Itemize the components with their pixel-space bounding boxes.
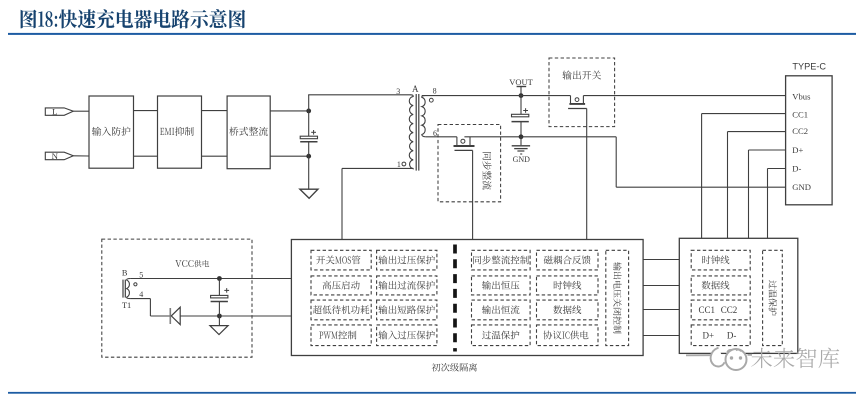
- terminal N: [45, 151, 73, 161]
- wire switch to Vbus: [583, 95, 785, 97]
- svg-text:VOUT: VOUT: [509, 77, 533, 87]
- label 初次级隔离: [432, 363, 477, 372]
- wire D+ to protocol IC: [749, 150, 786, 238]
- ref label B: [122, 269, 128, 278]
- wire sync FET source rail: [464, 136, 616, 138]
- function block 高压启动: [311, 276, 371, 295]
- capacitor C3 VCC: [211, 279, 228, 317]
- junction dot output gnd rail: [519, 134, 524, 139]
- svg-text:D+: D+: [703, 331, 715, 341]
- polarity dot secondary pin8: [429, 98, 433, 102]
- junction dot VCC cap bottom: [217, 314, 222, 319]
- ground input bulk: [300, 156, 318, 198]
- diode D1: [170, 307, 180, 324]
- transistor Q1 output switch MOSFET: [568, 96, 587, 109]
- watermark swoosh: [686, 348, 752, 367]
- wire bus line 2: [643, 285, 679, 287]
- pin Vbus: [792, 91, 811, 101]
- wire VOUT stub: [520, 87, 522, 96]
- pin label 5: [139, 270, 143, 279]
- function block 同步整流控制: [472, 250, 531, 270]
- svg-text:3: 3: [396, 87, 400, 96]
- transformer T1 aux winding: [127, 279, 131, 299]
- pin D-: [792, 164, 801, 174]
- terminal L: [45, 107, 73, 117]
- pin D+: [792, 145, 803, 155]
- function block 输出短路保护: [377, 300, 437, 320]
- svg-text:8: 8: [433, 87, 437, 96]
- pin CC1: [792, 109, 808, 119]
- pin label 4: [139, 290, 143, 299]
- wire diode to VCC return: [180, 315, 291, 317]
- function block 超低待机功耗: [311, 300, 371, 320]
- function block 数据线: [537, 300, 599, 320]
- svg-text:A: A: [412, 84, 419, 94]
- junction dot top of bulk cap: [306, 109, 311, 114]
- dashed box VCC供电: [102, 239, 252, 357]
- svg-text:4: 4: [139, 290, 143, 299]
- transformer T1 aux core: [123, 280, 125, 298]
- interface block 数据线: [691, 276, 750, 295]
- connector J1 TYPE-C box: [786, 76, 833, 205]
- wire primary bottom to PWM controller: [342, 168, 411, 239]
- wire bridge to bulk-cap top: [270, 110, 309, 112]
- wire secondary pin6 to sync FET: [426, 136, 457, 138]
- svg-text:GND: GND: [513, 155, 531, 164]
- wire CC1 to protocol IC: [702, 114, 786, 239]
- polarity dot primary pin1: [402, 162, 406, 166]
- wire riser to transformer primary: [308, 95, 410, 111]
- svg-text:CC1: CC1: [698, 305, 715, 315]
- watermark logo circle: [726, 349, 747, 370]
- transistor Q2 sync rectifier MOSFET: [454, 137, 475, 151]
- block U1 输入防护: [89, 96, 134, 168]
- pin label 3 primary top: [396, 87, 400, 96]
- svg-text:CC1: CC1: [792, 109, 808, 119]
- svg-text:CC2: CC2: [721, 305, 738, 315]
- interface block CC1 CC2: [691, 300, 750, 320]
- ref label T1: [122, 301, 131, 310]
- wire 输入防护 to EMI top: [134, 110, 158, 112]
- function block 过温保护: [472, 325, 531, 346]
- function block 输出电压关闭控制: [606, 250, 629, 345]
- wire bridge to bulk-cap bottom: [270, 155, 309, 157]
- connector J1 TYPE-C label: [792, 61, 826, 71]
- wire L to input-protection: [73, 110, 89, 112]
- pin GND: [792, 182, 811, 192]
- svg-text:CC2: CC2: [792, 126, 808, 136]
- wire 输入防护 to EMI bottom: [134, 155, 158, 157]
- block U5 protocol IC outline: [679, 238, 798, 353]
- pin label 6 secondary bottom: [433, 129, 437, 138]
- function block 输出过流保护: [377, 276, 437, 295]
- pin CC2: [792, 126, 808, 136]
- wire pin5 to VCC rail: [130, 278, 291, 280]
- svg-text:TYPE-C: TYPE-C: [792, 61, 826, 71]
- capacitor C2 output: [512, 96, 529, 137]
- transformer T2 core: [416, 94, 419, 171]
- wire bus line 3: [643, 309, 679, 311]
- wire N to input-protection: [73, 155, 89, 157]
- ground VCC: [210, 316, 228, 335]
- junction dot VOUT rail: [519, 93, 524, 98]
- pin label 1 primary bottom: [397, 160, 401, 169]
- interface block 时钟线: [691, 250, 750, 270]
- bottom rule: [8, 392, 856, 394]
- transformer T2 primary winding: [409, 95, 413, 169]
- interface block D+ D-: [691, 325, 750, 346]
- function block 输出恒流: [472, 300, 531, 320]
- block U2 EMI抑制: [158, 96, 202, 168]
- wire Q1 gate to controller: [586, 109, 588, 240]
- svg-text:Vbus: Vbus: [792, 91, 811, 101]
- junction dot bottom of bulk cap: [306, 154, 311, 159]
- function block 输出过压保护: [377, 250, 437, 270]
- block U4 controller outline: [291, 240, 643, 356]
- capacitor C1 bulk electrolytic: [300, 111, 317, 156]
- pin label 8 secondary top: [433, 87, 437, 96]
- wire EMI to bridge top: [202, 110, 228, 112]
- wire CC2 to protocol IC: [728, 132, 786, 239]
- wire pin4 to diode: [130, 299, 169, 316]
- svg-text:D-: D-: [792, 164, 801, 174]
- function block 协议IC供电: [537, 325, 599, 346]
- isolation barrier dashed line: [453, 245, 457, 352]
- svg-text:N: N: [52, 151, 59, 161]
- function block PWM控制: [311, 325, 371, 346]
- junction dot VCC cap top: [217, 276, 222, 281]
- block U3 桥式整流: [227, 96, 270, 169]
- wire gnd rail to TYPE-C GND: [616, 186, 785, 188]
- watermark text 未来智库: [751, 348, 839, 369]
- polarity + of C2: [523, 108, 528, 113]
- net label VOUT: [509, 77, 533, 87]
- wire bus line 4: [643, 335, 679, 337]
- node label A transformer: [412, 84, 419, 94]
- dashed box 同步整流: [438, 125, 501, 202]
- title underline rule: [8, 33, 856, 35]
- wire secondary pin8 rail to switch: [422, 95, 571, 97]
- svg-text:D+: D+: [792, 145, 803, 155]
- title 图18:快速充电器电路示意图: [21, 9, 246, 28]
- wire Q2 gate to controller: [472, 150, 474, 239]
- wire EMI to bridge bottom: [202, 155, 228, 157]
- function block 磁耦合反馈: [537, 250, 599, 270]
- polarity + of C1: [311, 130, 316, 135]
- svg-text:B: B: [122, 269, 128, 278]
- wire D- to protocol IC: [768, 169, 786, 239]
- function block 输出恒压: [472, 276, 531, 295]
- dashed box 输出开关: [549, 58, 615, 127]
- function block 开关MOS管: [311, 250, 371, 270]
- wire gnd rail down: [615, 137, 617, 187]
- function block 输入过压保护: [377, 325, 437, 346]
- interface block 过温保护 vertical: [763, 250, 783, 345]
- svg-text:GND: GND: [792, 182, 811, 192]
- polarity dot T1: [134, 283, 137, 286]
- svg-text:L: L: [52, 107, 57, 117]
- transformer T2 secondary winding: [422, 96, 426, 137]
- function block 时钟线: [537, 276, 599, 295]
- wire bus line 1: [643, 259, 679, 261]
- polarity + of C3: [224, 288, 229, 293]
- svg-text:D-: D-: [727, 331, 737, 341]
- ground output GND: [512, 137, 530, 164]
- svg-text:T1: T1: [122, 301, 131, 310]
